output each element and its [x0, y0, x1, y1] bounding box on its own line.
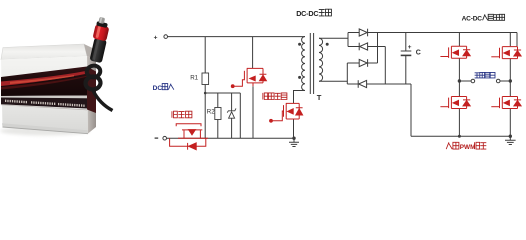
svg-text:DC: DC	[153, 85, 163, 92]
svg-text:+: +	[154, 34, 158, 41]
svg-text:DC-DC: DC-DC	[296, 9, 318, 18]
svg-text:+: +	[408, 44, 412, 51]
svg-text:R2: R2	[207, 109, 215, 116]
svg-text:PWM: PWM	[460, 144, 476, 151]
svg-text:AC-DC: AC-DC	[462, 15, 483, 22]
svg-text:R1: R1	[190, 74, 198, 81]
svg-text:C: C	[416, 50, 421, 57]
svg-text:T: T	[317, 93, 322, 102]
